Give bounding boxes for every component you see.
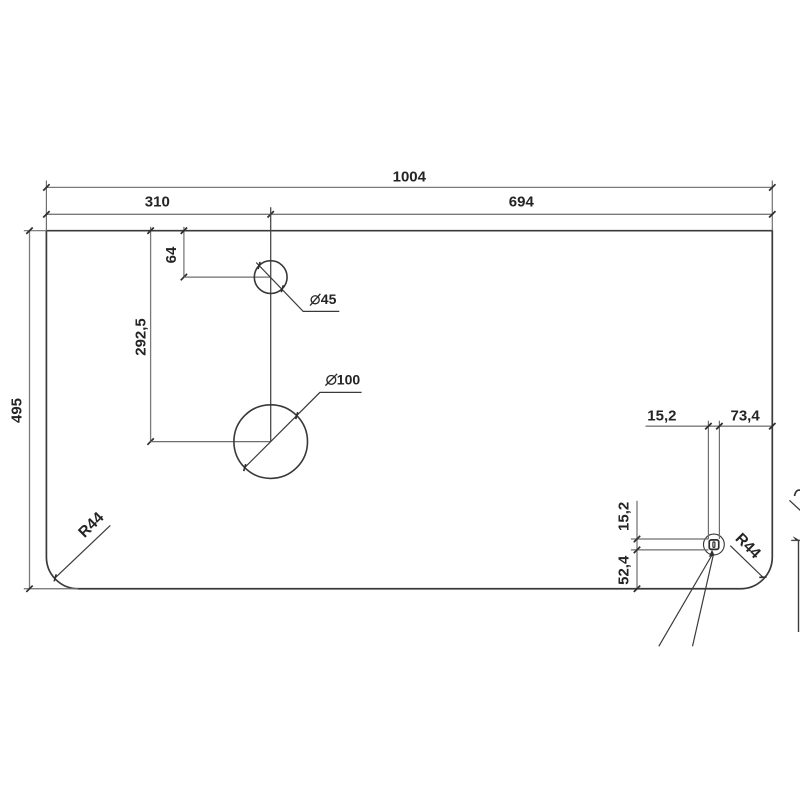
leader D100 <box>244 392 362 471</box>
svg-text:1004: 1004 <box>393 168 427 185</box>
extension line left edge up (for 1004/310 dims) <box>45 181 47 231</box>
svg-text:52,4: 52,4 <box>616 555 633 585</box>
extension line right edge up (for 1004/694 dims) <box>771 181 773 231</box>
dimension 15,2 / 52,4 line (left of square hole) <box>634 501 640 592</box>
svg-text:15,2: 15,2 <box>616 502 633 531</box>
hole circle D100 <box>234 405 308 479</box>
cropped dimension line at right edge <box>791 536 800 632</box>
svg-text:310: 310 <box>145 194 170 211</box>
svg-text:495: 495 <box>8 398 25 423</box>
circle around square hole <box>704 534 725 555</box>
dimension 310/694 line <box>43 211 775 217</box>
svg-text:45: 45 <box>321 291 337 307</box>
svg-text:694: 694 <box>509 194 535 211</box>
extension lines above square hole <box>708 421 719 539</box>
inner slot of square hole <box>713 542 715 548</box>
leader lines to square hole <box>659 550 715 647</box>
cropped leader line at right edge <box>789 500 800 510</box>
svg-text:73,4: 73,4 <box>730 408 760 425</box>
cropped glyph fragment at right edge <box>795 490 800 496</box>
leader D45 <box>256 262 339 311</box>
svg-text:100: 100 <box>337 372 361 388</box>
dimension 64 line <box>181 227 271 280</box>
extension line top-left (for 495 dim) <box>24 230 47 232</box>
leader R44 bottom-left <box>54 525 110 581</box>
label D100 text <box>325 372 360 388</box>
dimension 292,5 line <box>147 227 270 445</box>
label D45 text <box>310 291 336 307</box>
hole circle D45 <box>254 261 287 294</box>
panel outline (1004 x 495 countertop, rounded bottom corners) <box>46 231 772 589</box>
dimension 15,2 / 73,4 line (top of square hole) <box>646 423 776 429</box>
extension lines left of square hole <box>631 539 709 550</box>
leader R44 bottom-right <box>730 546 766 578</box>
svg-text:292,5: 292,5 <box>133 318 150 356</box>
svg-text:64: 64 <box>163 246 180 263</box>
dimension 495 line (left) <box>26 228 32 592</box>
svg-text:15,2: 15,2 <box>647 408 676 425</box>
extension line bottom-left (for 495 dim) <box>24 588 78 590</box>
centerline through holes <box>270 207 272 441</box>
dimension 1004 line <box>43 184 775 190</box>
square hole 15,2 x 15,2 <box>709 540 719 550</box>
